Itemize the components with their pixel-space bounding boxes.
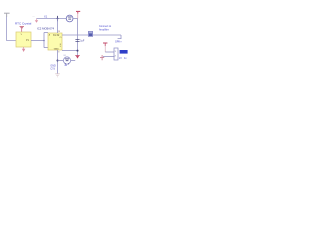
wire to J1 pin 1 (105, 51, 114, 53)
buzzer inner marks (65, 59, 69, 61)
svg-text:SPK+: SPK+ (115, 39, 122, 43)
ground (faint) bottom (55, 74, 60, 77)
svg-text:1uF: 1uF (80, 39, 85, 42)
svg-text:X1: X1 (44, 15, 48, 19)
speaker net wire (long horizontal) (62, 34, 121, 36)
svg-text:IC2 MOB-074: IC2 MOB-074 (37, 26, 55, 30)
junction at x44 (43, 40, 45, 42)
buzzer terminal ticks (65, 63, 68, 64)
power symbol (gray) top-left (4, 13, 10, 17)
IC U2 (melody chip, yellow body) (48, 33, 62, 50)
junction on rail (77, 50, 79, 52)
power port above U1 (red) (20, 26, 25, 32)
wire crystal right to vertical rail (73, 18, 78, 20)
power port below U1 (pink) (22, 47, 25, 52)
connector J1 (114, 48, 118, 60)
wire vertical branch x=44 (43, 33, 45, 48)
wire branch down to U2 XTAL pin (57, 19, 59, 34)
wire U2 bottom-right to rail (62, 50, 78, 52)
crystal inner marks (68, 17, 72, 19)
svg-text:GND: GND (54, 49, 59, 51)
wire junction to buzzer (58, 60, 64, 62)
wire U1 right pin to U2 left pins (31, 40, 44, 42)
power port bottom of rail (red) (75, 56, 79, 59)
power port below J1 (red/gray cross) (100, 55, 104, 60)
svg-text:O: O (60, 37, 62, 39)
wire buzzer right (71, 60, 76, 62)
wire to U2 bottom-left pin (44, 47, 48, 49)
power port top rail (pink, below wire) (35, 19, 38, 23)
svg-text:C7d: C7d (50, 68, 55, 71)
vertical rail wire (77, 19, 79, 56)
wire U2 bottom pin down (57, 50, 59, 74)
IC U1 (RTC, yellow body) (16, 32, 31, 47)
top rail wire to crystal (37, 18, 67, 20)
wire corner down at right (118, 35, 121, 39)
crystal B1 (circle symbol) (66, 15, 73, 22)
junction on top rail (dark tick) (57, 18, 59, 20)
buzzer LS1 (circle symbol) (63, 57, 70, 64)
power port above J1 (red) (103, 43, 107, 52)
wire to J1 pin 2 (103, 56, 114, 58)
capacitor C1 on rail (75, 40, 79, 42)
svg-text:4R: 4R (64, 65, 67, 67)
wire to U2 top-left pin (44, 32, 48, 34)
wire from gray symbol to U1 left pin (7, 17, 16, 41)
selected net label (blue highlight bar) (120, 50, 128, 54)
junction at buzzer tap (57, 60, 59, 62)
svg-text:Amplifier: Amplifier (99, 28, 109, 31)
bead/cap FB1 on speaker net (88, 31, 92, 36)
power port right of crystal (red) (76, 11, 80, 18)
svg-text:JX: JX (119, 57, 122, 60)
svg-text:RTC Crystal: RTC Crystal (15, 22, 32, 26)
